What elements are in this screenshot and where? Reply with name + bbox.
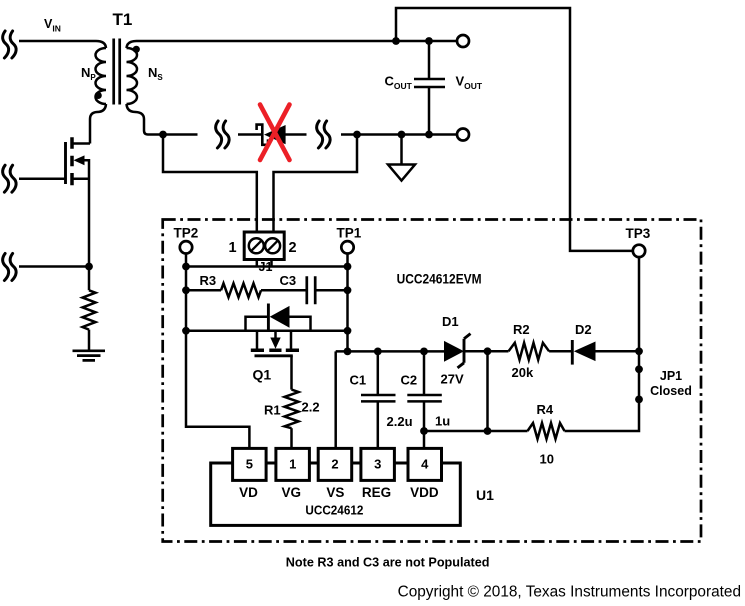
svg-text:R3: R3 [200, 273, 217, 288]
svg-text:C3: C3 [280, 273, 297, 288]
svg-text:C1: C1 [350, 373, 367, 388]
svg-text:U1: U1 [476, 487, 494, 503]
svg-text:1u: 1u [435, 414, 450, 429]
svg-text:D2: D2 [575, 322, 592, 337]
svg-text:VS: VS [326, 485, 344, 500]
svg-text:5: 5 [246, 457, 253, 472]
svg-text:Closed: Closed [650, 384, 692, 398]
svg-text:TP3: TP3 [626, 226, 651, 241]
svg-text:C2: C2 [401, 373, 418, 388]
svg-text:J1: J1 [259, 260, 273, 274]
svg-text:2.2: 2.2 [302, 400, 320, 415]
svg-text:2: 2 [331, 457, 338, 472]
svg-text:10: 10 [540, 452, 554, 467]
svg-text:1: 1 [289, 457, 296, 472]
svg-text:3: 3 [374, 457, 381, 472]
svg-text:D1: D1 [442, 314, 459, 329]
svg-text:UCC24612: UCC24612 [305, 503, 363, 518]
svg-text:JP1: JP1 [660, 369, 682, 383]
svg-text:Note R3 and C3 are not Populat: Note R3 and C3 are not Populated [286, 555, 490, 570]
svg-text:R4: R4 [537, 402, 554, 417]
svg-text:UCC24612EVM: UCC24612EVM [397, 271, 482, 287]
svg-text:VIN: VIN [44, 17, 61, 34]
svg-text:Q1: Q1 [253, 367, 272, 383]
svg-text:2.2u: 2.2u [387, 414, 413, 429]
svg-text:VOUT: VOUT [456, 74, 483, 92]
svg-text:VD: VD [239, 485, 258, 500]
svg-text:27V: 27V [441, 372, 464, 387]
svg-text:VG: VG [282, 485, 302, 500]
svg-text:R1: R1 [264, 403, 281, 418]
svg-text:REG: REG [362, 485, 391, 500]
svg-text:2: 2 [288, 240, 296, 256]
svg-text:NS: NS [148, 65, 163, 82]
svg-text:R2: R2 [513, 322, 530, 337]
svg-text:NP: NP [81, 65, 96, 82]
svg-text:VDD: VDD [410, 485, 439, 500]
svg-text:Copyright © 2018, Texas Instru: Copyright © 2018, Texas Instruments Inco… [398, 583, 741, 600]
svg-text:T1: T1 [113, 10, 133, 29]
svg-text:4: 4 [421, 457, 429, 472]
svg-text:TP2: TP2 [174, 226, 199, 241]
svg-text:1: 1 [228, 240, 236, 256]
svg-text:20k: 20k [512, 365, 534, 380]
svg-text:COUT: COUT [385, 74, 413, 92]
svg-text:TP1: TP1 [337, 226, 362, 241]
